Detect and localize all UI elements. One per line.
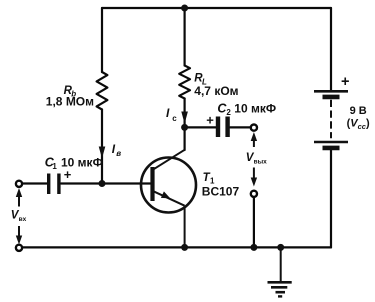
transistor Q1 emitter arrowhead: [161, 191, 170, 198]
battery B1 bottom cell long plate: [314, 141, 348, 144]
wire left vertical upper (top rail to Rb): [101, 8, 103, 72]
svg-text:4,7 кОм: 4,7 кОм: [194, 84, 238, 98]
Vin arrow down: [18, 226, 20, 236]
input terminal top: [16, 181, 22, 187]
resistor Rb zigzag: [97, 72, 108, 110]
capacitor C1 right plate: [57, 174, 60, 195]
Vout arrow up: [253, 140, 255, 147]
capacitor C1 left plate: [47, 174, 50, 195]
transistor Q1 base bar: [150, 167, 154, 201]
wire middle vertical upper (top rail to RL): [184, 8, 186, 66]
wire C2 to output terminal: [230, 126, 251, 128]
capacitor C2 right plate: [225, 117, 229, 138]
junction node base: [99, 180, 106, 187]
svg-text:c: c: [172, 114, 177, 123]
ground symbol stem: [280, 247, 282, 281]
wire right vertical upper (top rail to battery): [330, 8, 332, 90]
junction node top rail / RL: [181, 5, 188, 12]
svg-text:I: I: [166, 106, 170, 120]
battery B1 bottom cell short plate: [323, 146, 340, 151]
Vout arrow down: [253, 168, 255, 178]
svg-text:вых: вых: [254, 158, 268, 165]
current arrow IC: [181, 112, 188, 124]
Vin arrow up: [18, 196, 20, 207]
ground symbol bar 2: [271, 286, 287, 289]
transistor Q1 collector diagonal: [154, 150, 185, 170]
ground symbol bar 4: [278, 295, 282, 297]
wire RL to collector node: [184, 99, 186, 151]
capacitor C2 left plate: [216, 117, 220, 138]
svg-text:1: 1: [52, 162, 57, 171]
resistor RL zigzag: [179, 66, 190, 99]
output terminal top: [251, 125, 257, 131]
junction node output bottom rail: [250, 244, 257, 251]
wire C1 to base node: [61, 182, 150, 184]
svg-text:+: +: [206, 112, 214, 127]
svg-text:(Vcc): (Vcc): [347, 118, 370, 132]
junction node emitter bottom rail: [181, 244, 188, 251]
wire Rb to base node: [101, 110, 103, 184]
battery B1 top cell long plate: [314, 90, 348, 93]
svg-text:в: в: [116, 149, 121, 158]
battery B1 dashed link: [330, 100, 332, 139]
wire base: [22, 182, 47, 184]
svg-text:I: I: [112, 142, 116, 156]
svg-text:9 В: 9 В: [350, 105, 367, 117]
wire collector node to C2: [185, 126, 216, 128]
wire bottom rail: [22, 246, 331, 248]
svg-text:2: 2: [226, 108, 231, 117]
input terminal bottom: [16, 245, 22, 251]
current arrow IB: [99, 147, 106, 159]
wire emitter to bottom rail: [184, 206, 186, 248]
wire top rail: [102, 7, 331, 9]
battery B1 top cell short plate: [323, 95, 340, 100]
transistor Q1 emitter diagonal: [154, 191, 185, 205]
svg-text:+: +: [341, 74, 349, 90]
ground symbol bar 3: [276, 291, 286, 294]
transistor Q1 circle: [141, 158, 196, 213]
svg-text:1,8 МОм: 1,8 МОм: [46, 95, 94, 109]
wire output lower terminal to bottom rail: [253, 197, 255, 247]
junction node collector: [181, 124, 188, 131]
svg-text:10 мкФ: 10 мкФ: [234, 101, 276, 115]
svg-text:+: +: [64, 167, 72, 182]
svg-text:BC107: BC107: [202, 184, 240, 198]
output terminal bottom: [251, 191, 257, 197]
junction node ground bottom rail: [277, 244, 284, 251]
wire right vertical lower (battery to bottom rail): [330, 148, 332, 247]
ground symbol bar 1: [268, 281, 292, 284]
svg-text:вх: вх: [19, 216, 27, 223]
